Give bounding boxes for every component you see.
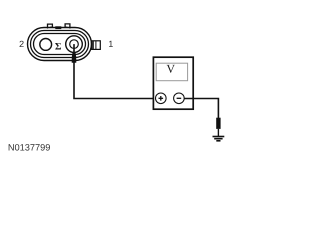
connector C1 inner shell (34, 34, 86, 55)
label pin 1 (109, 41, 113, 47)
connector C1 middle shell (31, 31, 89, 58)
voltmeter body (153, 57, 193, 109)
connector top latch left (48, 24, 53, 28)
ground lead wire (217, 129, 219, 136)
pin 2 cavity circle (40, 39, 52, 51)
ground lead terminal bar (216, 118, 220, 129)
connector side tab (92, 41, 101, 50)
connector side tab inner line (95, 41, 97, 50)
connector side tab inner bar (92, 41, 94, 50)
voltmeter display (156, 63, 187, 80)
connector top latch middle (56, 27, 61, 29)
figure number label (9, 144, 50, 151)
probe arrow into pin 1 (73, 44, 75, 51)
voltmeter minus terminal (174, 93, 185, 104)
connector top latch right (65, 24, 70, 29)
wire from voltmeter minus to ground (184, 99, 218, 119)
voltmeter V label (167, 65, 175, 73)
wire from pin 1 to voltmeter plus (74, 62, 156, 99)
connector C1 outer shell (28, 28, 92, 61)
ground symbol (213, 136, 225, 138)
pin 1 cavity inner circle (70, 40, 79, 49)
label pin 2 (20, 41, 24, 47)
voltmeter plus terminal (156, 93, 167, 104)
pin 1 cavity outer circle (66, 36, 83, 53)
sigma marking (55, 43, 61, 50)
